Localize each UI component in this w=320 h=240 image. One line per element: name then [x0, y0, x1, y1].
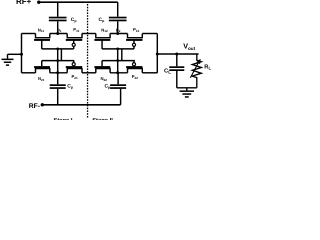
wire P11 drain to N12 source — [82, 33, 96, 35]
svg-text:N11: N11 — [38, 27, 45, 33]
svg-text:Cp: Cp — [99, 17, 106, 23]
transistor N11 — [34, 34, 50, 49]
junction dot B1 line — [56, 59, 59, 62]
svg-text:B2: B2 — [116, 27, 121, 33]
junction dot Vout left — [156, 53, 159, 56]
svg-text:N12: N12 — [101, 27, 108, 33]
label N22 — [101, 76, 108, 82]
node RF- dot — [41, 103, 44, 106]
transistor P22 — [126, 61, 143, 73]
svg-text:P22: P22 — [132, 74, 139, 80]
junction dot left column — [20, 53, 23, 56]
svg-text:N22: N22 — [101, 76, 108, 82]
junction dot A2 — [116, 48, 119, 51]
svg-text:Stage II: Stage II — [92, 117, 113, 120]
junction dot A1 — [56, 48, 59, 51]
label P22 — [132, 74, 139, 80]
capacitor Cp stage1 bottom — [50, 73, 66, 105]
svg-text:CL: CL — [164, 67, 171, 74]
wire gate line B2 (N22,P22 gates) — [102, 60, 135, 62]
label P21 — [72, 74, 79, 80]
transistor N22 — [94, 61, 110, 73]
svg-text:N21: N21 — [38, 76, 45, 82]
label Cp stage2 bottom — [104, 84, 111, 90]
label N11 — [38, 27, 45, 33]
svg-text:RF+: RF+ — [16, 0, 32, 6]
label Cp stage1 bottom — [67, 84, 74, 90]
svg-text:P12: P12 — [133, 27, 140, 33]
junction dot CL top — [175, 53, 178, 56]
svg-text:Cp: Cp — [104, 84, 111, 90]
capacitor Cp stage2 bottom — [110, 73, 126, 105]
svg-text:Cp: Cp — [67, 84, 74, 90]
svg-text:P21: P21 — [72, 74, 79, 80]
label P12 — [133, 27, 140, 33]
resistor RL (variable) — [190, 54, 201, 88]
transistor P11 — [66, 34, 83, 49]
transistor N12 — [94, 34, 110, 49]
transistor N21 — [34, 61, 50, 73]
wire node B2 row1 — [110, 33, 127, 35]
label B2 — [116, 27, 121, 33]
wire cross-couple vertical stage1 — [57, 49, 59, 73]
transistor P21 — [66, 61, 83, 73]
svg-text:B1: B1 — [57, 27, 62, 33]
wire P12 drain to output column — [142, 33, 157, 35]
wire gate line B1 (N21,P21 gates) — [42, 60, 74, 62]
wire to ground — [8, 54, 22, 58]
wire RF+ top rail — [39, 1, 118, 3]
svg-text:Vout: Vout — [183, 42, 195, 51]
label Cp stage1 top — [71, 17, 78, 23]
node B2 dot — [116, 32, 119, 35]
svg-text:RL: RL — [204, 65, 211, 71]
node B2b dot — [116, 71, 119, 74]
label Vout — [183, 42, 195, 51]
wire node B1b row2 — [50, 72, 67, 74]
wire P22 drain to output column — [142, 72, 157, 74]
node RF- label — [29, 103, 40, 110]
wire N21 source to left column — [22, 72, 36, 74]
wire left column — [21, 34, 23, 73]
label Stage I — [53, 117, 72, 124]
label RL — [204, 65, 211, 71]
wire short vertical stage1 — [60, 49, 62, 61]
node B1 dot — [56, 32, 59, 35]
capacitor Cp stage2 top — [109, 2, 127, 33]
wire node B1 row1 — [50, 33, 67, 35]
wire RF- bottom rail — [42, 104, 120, 106]
svg-text:RF-: RF- — [29, 103, 40, 110]
label P11 — [73, 27, 79, 33]
svg-text:Cp: Cp — [71, 17, 78, 23]
wire node B2b row2 — [110, 72, 127, 74]
wire cross-couple vertical stage2 — [117, 49, 119, 73]
node RF+ dot — [37, 1, 40, 4]
wire ground stem output — [186, 88, 188, 91]
wire short vertical stage2 — [121, 49, 123, 61]
stage separator dashed line — [87, 4, 88, 118]
label CL — [164, 67, 171, 74]
ground left — [2, 59, 14, 66]
node RF+ label — [16, 0, 32, 6]
label Cp stage2 top — [99, 17, 106, 23]
label Stage II — [92, 117, 113, 124]
wire output column — [156, 34, 158, 73]
label B1 — [57, 27, 62, 33]
junction dot B2 line — [116, 59, 119, 62]
wire Vout rail — [157, 53, 198, 55]
transistor P12 — [126, 34, 143, 49]
svg-text:Stage I: Stage I — [53, 117, 72, 120]
capacitor Cp stage1 top — [49, 2, 67, 33]
label N12 — [101, 27, 108, 33]
ground output — [180, 90, 194, 97]
wire N11 source to left column — [22, 33, 36, 35]
wire gate line A1 (N11,P11 gates) — [42, 48, 74, 50]
wire P21 drain to N22 source — [82, 72, 96, 74]
node B1b dot — [56, 71, 59, 74]
wire output bottom — [177, 87, 197, 89]
capacitor CL — [169, 54, 184, 88]
label N21 — [38, 76, 45, 82]
wire gate line A2 (N12,P12 gates) — [102, 48, 134, 50]
svg-text:P11: P11 — [73, 27, 79, 33]
